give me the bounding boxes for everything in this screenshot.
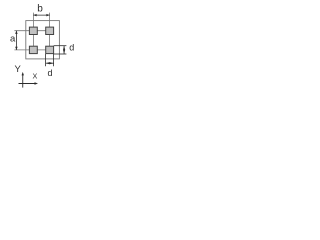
- dimension d bottom: right extension line: [53, 54, 55, 66]
- dimension d bottom: left arrow: [46, 62, 50, 64]
- wire: horizontal centerline through top pads (a top extension): [14, 30, 49, 32]
- dimension d right: dimension line: [63, 46, 65, 54]
- dimension a top arrow: [15, 31, 18, 34]
- svg-text:b: b: [37, 4, 43, 15]
- Y axis arrow: [22, 72, 24, 76]
- pad top-left: [29, 27, 37, 34]
- dimension d bottom: left extension line: [45, 54, 47, 66]
- dimension a bottom arrow: [15, 47, 18, 50]
- svg-text:d: d: [47, 68, 52, 78]
- wire: vertical centerline through right pads (b right extension): [49, 13, 51, 50]
- dimension a line: [15, 31, 17, 50]
- pad top-right: [46, 27, 54, 34]
- dimension d right: up arrow: [63, 46, 65, 50]
- svg-text:d: d: [69, 43, 74, 53]
- wire: horizontal centerline through bottom pads (a bottom extension): [14, 49, 49, 51]
- svg-text:Y: Y: [15, 64, 22, 75]
- dimension b line: [33, 14, 49, 16]
- wire: vertical centerline through left pads (b left extension): [32, 13, 34, 50]
- X axis arrow: [35, 82, 39, 84]
- Y axis line: [22, 74, 24, 87]
- dimension d right: top extension line: [54, 45, 67, 47]
- dimension d bottom: dimension line: [46, 62, 54, 64]
- dimension d bottom: right arrow: [50, 62, 54, 64]
- body outline rectangle: [26, 21, 60, 59]
- dimension b left arrow: [33, 14, 36, 17]
- svg-text:a: a: [10, 33, 16, 44]
- pad bottom-right: [46, 46, 54, 53]
- pad bottom-left: [29, 46, 37, 53]
- dimension b right arrow: [46, 14, 49, 17]
- X axis line: [19, 83, 36, 85]
- dimension d right: down arrow: [63, 50, 65, 54]
- svg-text:X: X: [33, 72, 38, 81]
- dimension d right: bottom extension line: [54, 53, 67, 55]
